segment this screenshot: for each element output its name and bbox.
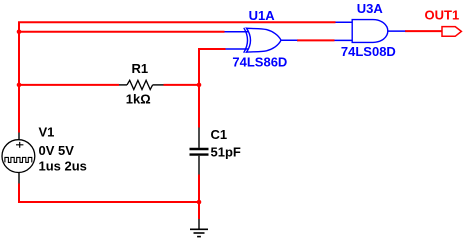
wire: resistor row right segment bbox=[164, 84, 200, 86]
label U1A refdes bbox=[249, 8, 276, 23]
label U3A part number 74LS08D bbox=[341, 44, 396, 59]
label C1 refdes bbox=[211, 127, 228, 142]
label V1 refdes bbox=[39, 124, 55, 139]
label C1 value 51pF bbox=[211, 145, 241, 160]
label R1 refdes bbox=[132, 61, 149, 76]
wire: top net from left rail to U3A input A bbox=[19, 22, 336, 32]
wire: U1A output to U3A input B bbox=[297, 39, 335, 41]
svg-text:1us 2us: 1us 2us bbox=[39, 158, 87, 173]
node: junction at mid rail y=84.9 bbox=[197, 83, 202, 88]
wire: mid vertical rail down to capacitor top pin bbox=[198, 85, 200, 128]
svg-text:51pF: 51pF bbox=[211, 145, 241, 160]
wire: U3A output to OUT1 connector bbox=[405, 30, 442, 32]
connector OUT1 bbox=[442, 27, 461, 37]
node: junction at left rail y=84.9 bbox=[17, 83, 22, 88]
wire: left vertical rail down to V1 bbox=[18, 32, 20, 133]
wire: V1 bottom to ground junction bbox=[19, 184, 199, 203]
node: ground junction bbox=[197, 200, 202, 205]
op-amp U3A: AND gate 74LS08D bbox=[335, 20, 406, 43]
svg-text:1kΩ: 1kΩ bbox=[126, 92, 151, 107]
node: junction at left rail y=31.8 bbox=[17, 30, 22, 35]
svg-text:OUT1: OUT1 bbox=[425, 8, 460, 23]
svg-text:C1: C1 bbox=[211, 127, 228, 142]
voltage source V1 (pulse source) bbox=[2, 133, 35, 184]
ground bbox=[190, 219, 208, 237]
op-amp U1A: XOR gate 74LS86D bbox=[225, 28, 298, 53]
label OUT1 bbox=[425, 8, 460, 23]
svg-text:U3A: U3A bbox=[357, 1, 384, 16]
wire: resistor row left segment bbox=[19, 84, 119, 86]
wire: ground junction down to ground symbol bbox=[198, 202, 200, 219]
label V1 value line 1: 0V 5V bbox=[39, 143, 75, 158]
svg-text:R1: R1 bbox=[132, 61, 149, 76]
resistor R1 bbox=[119, 80, 164, 89]
wire: second net from left rail to U1A input A bbox=[19, 31, 225, 33]
label U1A part number 74LS86D bbox=[232, 54, 287, 69]
label U3A refdes bbox=[357, 1, 384, 16]
svg-text:74LS08D: 74LS08D bbox=[341, 44, 396, 59]
wire: mid vertical rail up from resistor row to U1A input B row bbox=[199, 49, 226, 85]
label R1 value 1kOhm bbox=[126, 92, 151, 107]
wire: capacitor bottom pin to ground junction bbox=[198, 175, 200, 203]
svg-text:U1A: U1A bbox=[249, 8, 276, 23]
svg-text:74LS86D: 74LS86D bbox=[232, 54, 287, 69]
capacitor C1 bbox=[190, 128, 209, 175]
label V1 value line 2: 1us 2us bbox=[39, 158, 87, 173]
svg-text:V1: V1 bbox=[39, 124, 55, 139]
svg-text:0V 5V: 0V 5V bbox=[39, 143, 75, 158]
